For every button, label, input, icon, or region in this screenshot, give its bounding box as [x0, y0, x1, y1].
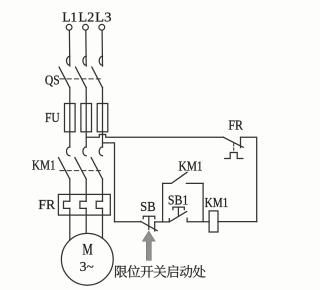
wire FR to motor pole 3: [102, 208, 104, 238]
wire L3 drop to QS: [101, 30, 103, 66]
svg-text:KM1: KM1: [32, 158, 56, 173]
coil KM1: [209, 211, 218, 232]
wire QS to FU pole 3: [102, 88, 104, 104]
svg-text:L1: L1: [62, 10, 77, 25]
pushbutton SB1 cap: [173, 207, 184, 215]
svg-text:L3: L3: [95, 10, 112, 25]
svg-text:SB: SB: [140, 200, 156, 215]
FR heater element pole 3: [96, 201, 102, 208]
FR trip bump: [225, 153, 243, 159]
wire coil to right rail: [218, 221, 257, 223]
KM1 main fixed contact pole 1: [67, 147, 70, 156]
wire FR to right rail: [241, 137, 257, 221]
FR NC contact arm: [224, 137, 244, 147]
KM1 main blade pole 3: [91, 158, 102, 179]
wire aux riser left: [162, 183, 164, 222]
terminal L1: [66, 24, 72, 30]
QS blade pole 2: [76, 67, 87, 88]
pushbutton SB terminal tick: [154, 222, 156, 231]
svg-text:KM1: KM1: [179, 160, 203, 175]
wire L1 drop to QS: [68, 30, 70, 66]
terminal L2: [83, 24, 89, 30]
KM1 aux NO arm: [163, 172, 187, 183]
pushbutton SB NC arm: [141, 221, 158, 230]
pushbutton SB1 ticks: [169, 218, 187, 222]
wire FR to motor pole 1: [69, 208, 71, 240]
FR heater element pole 1: [64, 201, 70, 208]
wire QS to FU pole 1: [69, 88, 71, 104]
svg-text:QS: QS: [45, 74, 60, 89]
QS fixed contact pole 3: [99, 56, 102, 65]
wire through fuse 2: [85, 104, 87, 148]
KM1 main blade pole 1: [59, 158, 70, 179]
svg-text:L2: L2: [78, 10, 94, 25]
wire bottom rail left: [115, 221, 141, 223]
pushbutton SB cap: [143, 216, 155, 229]
svg-text:SB1: SB1: [168, 194, 188, 209]
QS fixed contact pole 1: [67, 56, 70, 65]
wire control left rail from fuse3: [103, 143, 115, 222]
KM1 main fixed contact pole 3: [99, 147, 102, 156]
QS blade pole 3: [92, 67, 103, 88]
motor M circle: [61, 233, 113, 285]
pushbutton SB1 NO arm: [169, 212, 186, 222]
svg-text:KM1: KM1: [205, 196, 229, 211]
wire through fuse 1: [69, 104, 71, 148]
FR thermal element box: [58, 194, 110, 215]
svg-text:FU: FU: [45, 111, 60, 126]
KM1 main blade pole 2: [75, 158, 86, 179]
svg-text:M: M: [82, 241, 93, 258]
terminal L3: [99, 24, 105, 30]
annotation text 限位开关启动处: [115, 265, 206, 278]
FR NC contact terminal tick: [240, 137, 242, 147]
wire through fuse 3: [102, 104, 104, 148]
svg-text:FR: FR: [228, 119, 243, 134]
wire aux riser right: [202, 183, 204, 221]
wire QS to FU pole 2: [85, 88, 87, 104]
wire KM1 to FR pole 1: [69, 179, 71, 201]
wire SB1 to coil: [187, 221, 209, 223]
QS linkage dashed: [60, 78, 101, 80]
wire FR to motor pole 2: [85, 208, 87, 233]
fuse FU pole 2: [81, 104, 92, 132]
KM1 linkage dashed: [60, 170, 101, 172]
FR heater element pole 2: [80, 201, 86, 208]
wire KM1 to FR pole 3: [102, 179, 104, 201]
FR mech link dashed: [233, 144, 235, 153]
svg-text:FR: FR: [38, 198, 55, 213]
KM1 main fixed contact pole 2: [83, 147, 86, 156]
svg-text:3~: 3~: [80, 260, 95, 275]
fuse FU pole 3: [97, 104, 108, 132]
wire L2 drop to QS: [85, 30, 87, 66]
wire control feed from fuse2 with hop: [86, 135, 223, 138]
pointer arrow to SB: [142, 231, 155, 260]
fuse FU pole 1: [65, 104, 76, 132]
wire KM1 to FR pole 2: [85, 179, 87, 201]
wire aux top right lead: [186, 182, 203, 184]
wire SB to SB1: [155, 221, 170, 223]
QS blade pole 1: [59, 67, 70, 88]
QS fixed contact pole 2: [83, 56, 86, 65]
